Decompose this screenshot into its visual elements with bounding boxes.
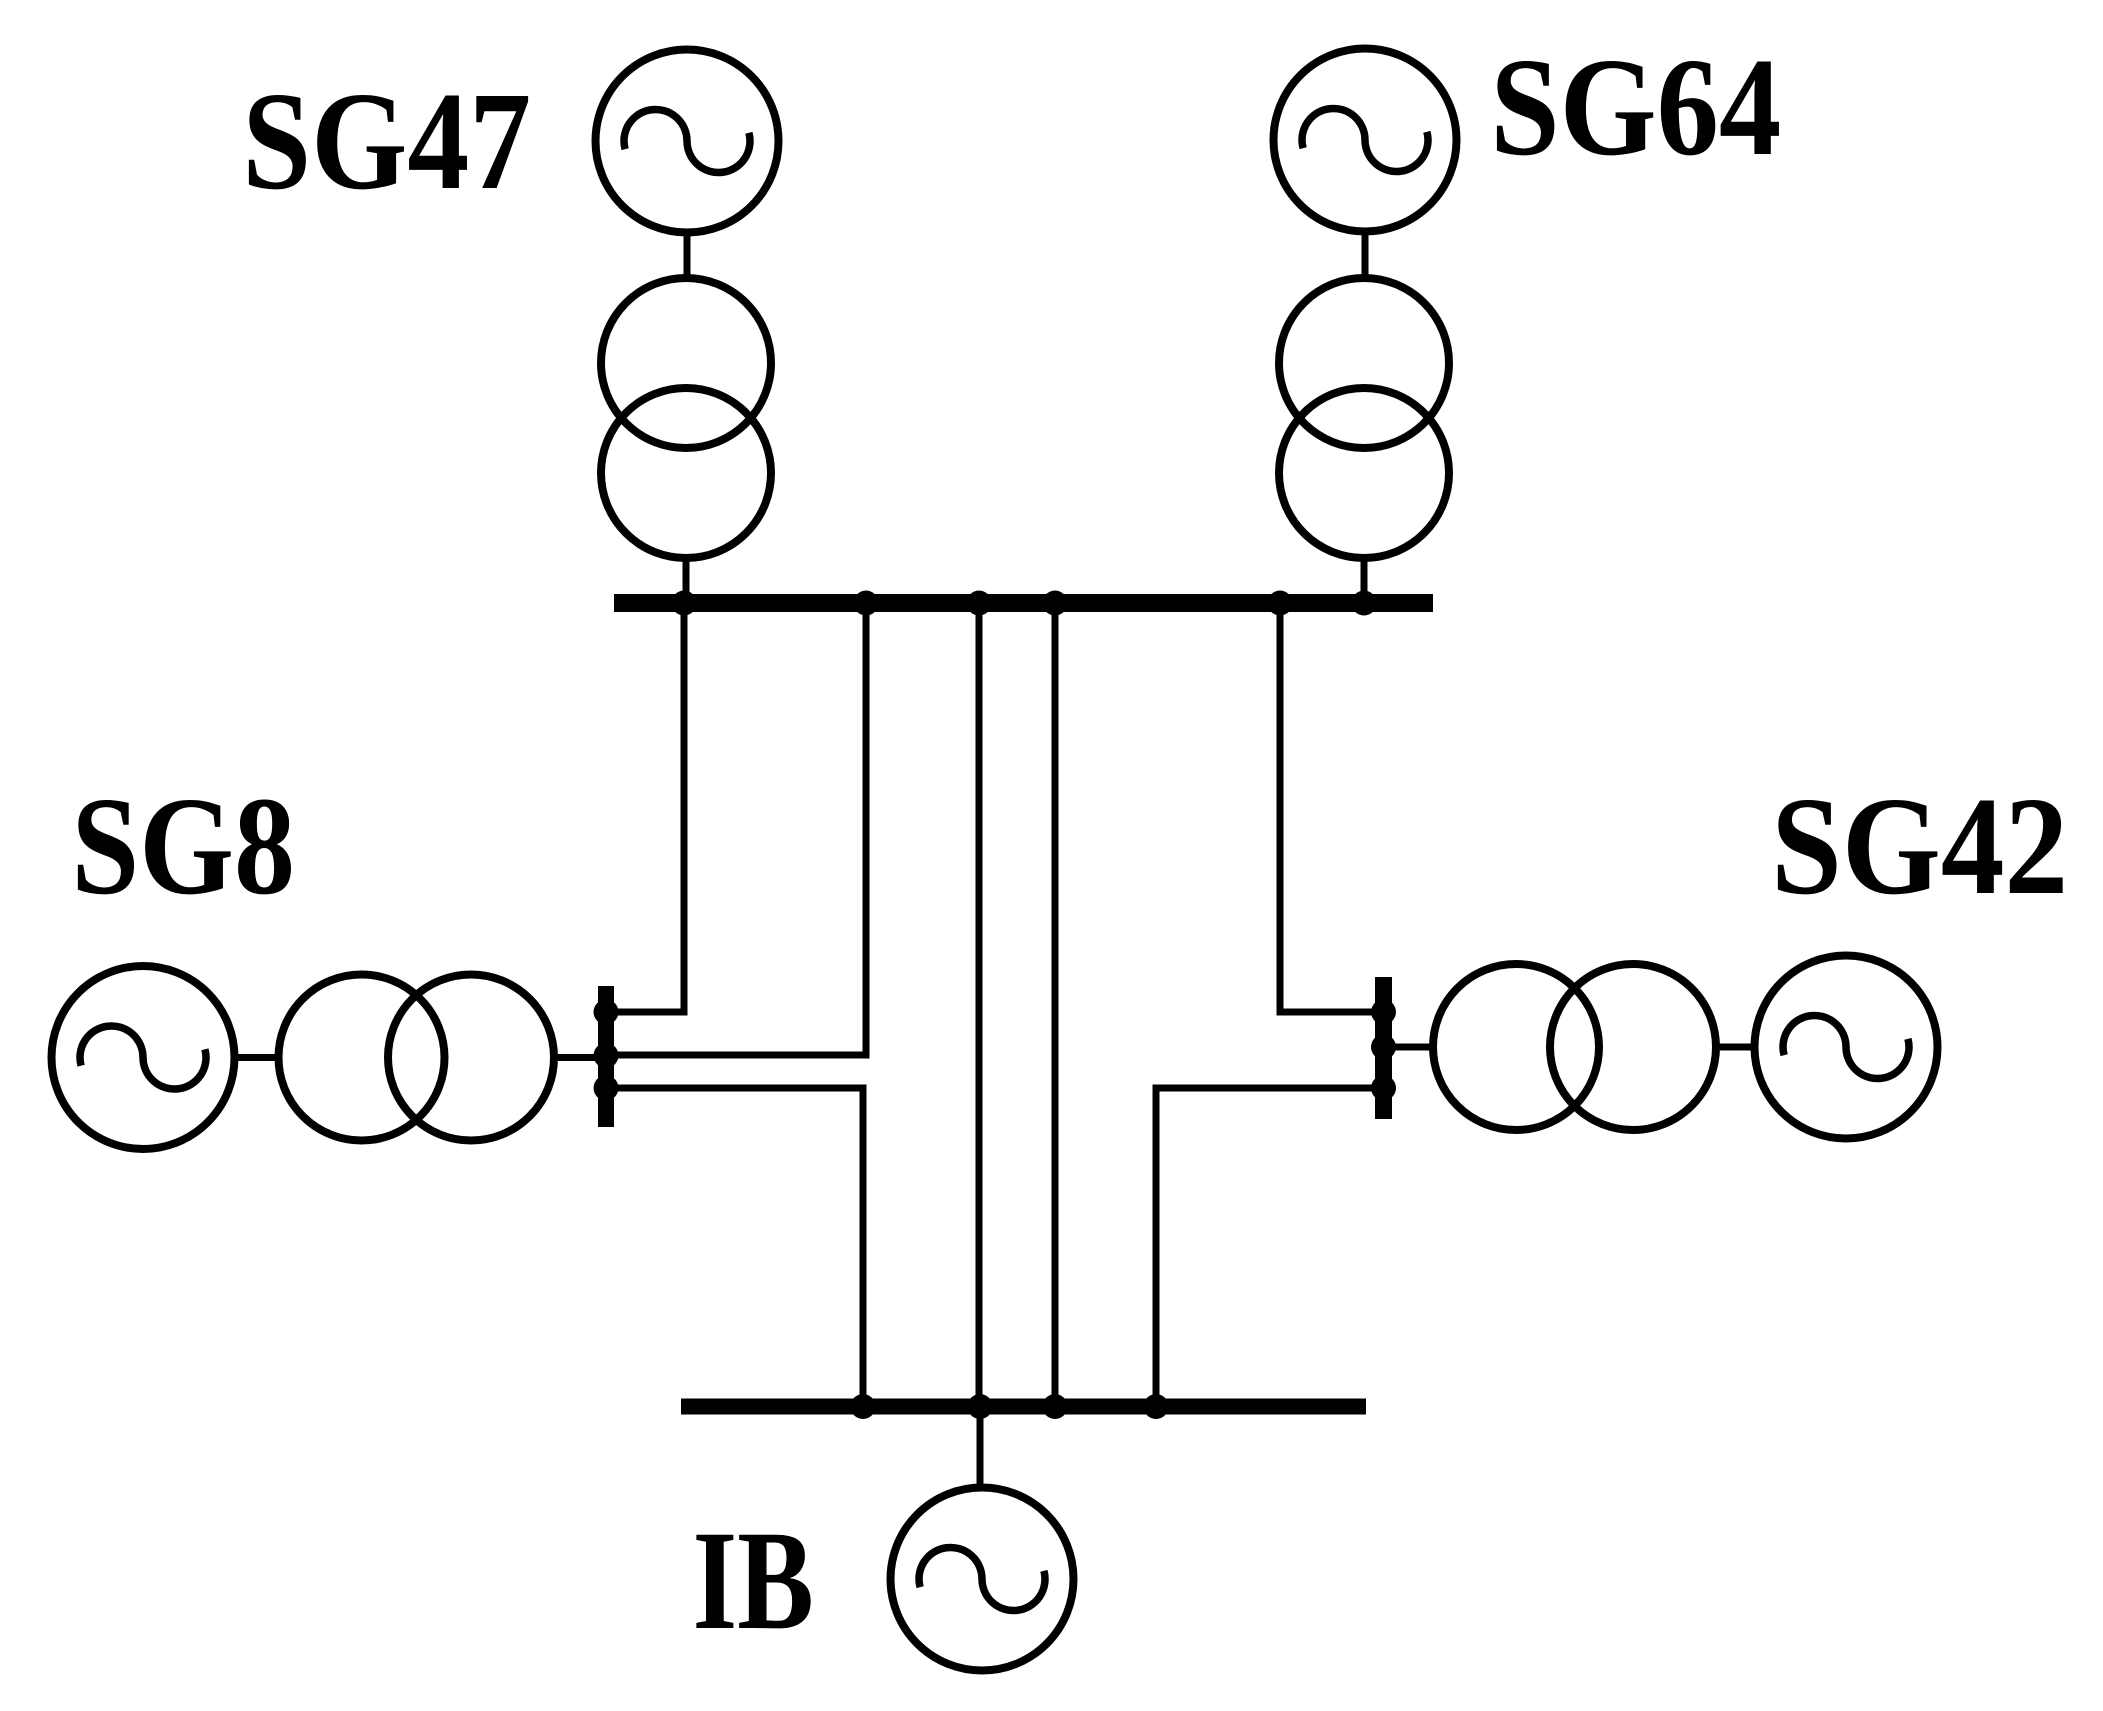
junction left bus middle bbox=[594, 1043, 619, 1068]
svg-text:SG47: SG47 bbox=[242, 63, 531, 219]
junction left bus upper bbox=[594, 1000, 619, 1025]
junction bottom bus at right line bbox=[1144, 1394, 1169, 1419]
generator SG47 bbox=[596, 50, 779, 233]
wire line top bus to bottom bus (line A) bbox=[976, 603, 983, 1407]
junction right bus lower bbox=[1371, 1076, 1396, 1101]
wire right bus to transformer T4 bbox=[1390, 1044, 1436, 1051]
wire SG8 to transformer T3 bbox=[233, 1054, 281, 1061]
junction top bus at line to right bus bbox=[1268, 591, 1293, 616]
wire line left bus to bottom bus bbox=[610, 1088, 863, 1407]
bus top (bus 1) bbox=[614, 594, 1433, 612]
junction top bus at line A bbox=[967, 591, 992, 616]
transformer T1 bbox=[601, 278, 771, 558]
bus right (bus 3) bbox=[1375, 977, 1392, 1119]
bus bottom (bus 4) bbox=[681, 1399, 1366, 1415]
generator SG64 bbox=[1274, 49, 1457, 232]
transformer T2 bbox=[1279, 278, 1449, 558]
junction top bus at SG64 feeder bbox=[1352, 591, 1377, 616]
junction bottom bus at line B bbox=[1043, 1394, 1068, 1419]
bus left (bus 2) bbox=[598, 986, 614, 1127]
wire line top bus to right bus bbox=[1280, 603, 1388, 1012]
junction right bus upper bbox=[1371, 1000, 1396, 1025]
junction right bus middle bbox=[1371, 1035, 1396, 1060]
svg-text:IB: IB bbox=[693, 1501, 814, 1658]
wire line right bus to bottom bus bbox=[1156, 1088, 1388, 1407]
wire SG64 to transformer T2 bbox=[1362, 229, 1369, 282]
svg-text:SG8: SG8 bbox=[71, 769, 295, 924]
wire SG47 to transformer T1 bbox=[684, 230, 691, 282]
wire T3 to left bus bbox=[552, 1054, 602, 1061]
wire T4 to SG42 bbox=[1714, 1044, 1758, 1051]
transformer T4 bbox=[1433, 964, 1716, 1130]
wire line top bus to left bus (lower) bbox=[610, 603, 866, 1055]
wire line top bus to bottom bus (line B) bbox=[1052, 603, 1059, 1407]
generator SG42 bbox=[1755, 956, 1938, 1139]
svg-text:SG42: SG42 bbox=[1771, 768, 2068, 923]
svg-text:SG64: SG64 bbox=[1490, 29, 1781, 185]
junction bottom bus at line A / IB feeder bbox=[968, 1394, 993, 1419]
junction top bus at line to left bus lower bbox=[854, 591, 879, 616]
junction top bus at SG47 feeder bbox=[672, 591, 697, 616]
junction left bus lower bbox=[594, 1076, 619, 1101]
junction top bus at line B bbox=[1043, 591, 1068, 616]
generator SG8 bbox=[52, 966, 235, 1149]
wire T2 to top bus bbox=[1361, 554, 1368, 600]
wire bottom bus to IB bbox=[977, 1407, 984, 1491]
wire T1 to top bus bbox=[683, 554, 690, 600]
junction bottom bus at left line bbox=[851, 1394, 876, 1419]
generator IB (infinite bus) bbox=[891, 1488, 1074, 1671]
wire line top bus to left bus (upper) bbox=[610, 603, 684, 1012]
transformer T3 bbox=[279, 975, 555, 1141]
